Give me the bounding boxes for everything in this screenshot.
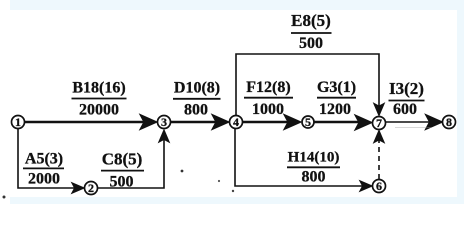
svg-text:8: 8 [446,115,452,129]
svg-text:1200: 1200 [319,101,351,118]
svg-text:2: 2 [88,181,94,195]
svg-text:800: 800 [302,169,326,186]
svg-text:7: 7 [376,116,382,130]
svg-text:1000: 1000 [252,101,284,118]
svg-text:1: 1 [15,115,21,129]
svg-text:600: 600 [393,101,417,118]
svg-text:H14(10): H14(10) [288,150,340,166]
svg-text:6: 6 [376,179,382,193]
svg-text:C8(5): C8(5) [102,150,143,169]
svg-text:2000: 2000 [28,171,60,188]
svg-text:G3(1): G3(1) [317,79,356,96]
svg-text:F12(8): F12(8) [246,79,290,96]
svg-text:3: 3 [161,115,167,129]
svg-text:800: 800 [184,102,208,119]
svg-text:4: 4 [233,115,239,129]
svg-text:500: 500 [299,35,323,52]
svg-text:D10(8): D10(8) [174,80,220,97]
svg-text:B18(16): B18(16) [72,80,125,97]
svg-text:E8(5): E8(5) [291,11,331,30]
svg-text:500: 500 [110,174,134,191]
svg-text:5: 5 [305,115,311,129]
svg-text:A5(3): A5(3) [25,151,63,168]
svg-text:I3(2): I3(2) [389,79,424,98]
svg-text:20000: 20000 [79,102,119,119]
